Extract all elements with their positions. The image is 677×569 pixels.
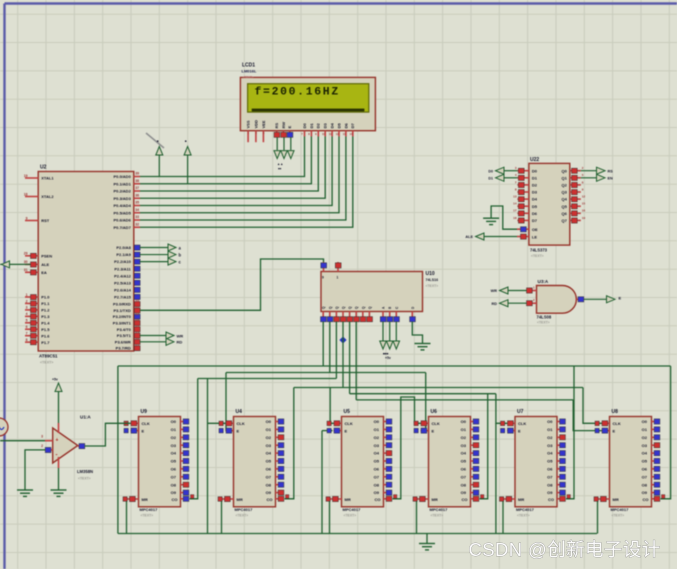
svg-text:LCD1: LCD1 (242, 62, 255, 68)
svg-text:3: 3 (41, 435, 43, 439)
svg-text:O4: O4 (642, 451, 648, 456)
svg-text:U2: U2 (40, 165, 47, 171)
svg-text:O8: O8 (374, 482, 380, 487)
svg-text:D0: D0 (302, 123, 307, 129)
svg-text:▲▲: ▲▲ (277, 162, 283, 166)
svg-text:P2.2/A10: P2.2/A10 (114, 259, 131, 264)
svg-text:O8: O8 (461, 482, 467, 487)
svg-text:<TEXT>: <TEXT> (141, 514, 154, 518)
svg-text:O7: O7 (266, 474, 272, 479)
svg-text:33: 33 (135, 215, 139, 219)
svg-text:O6: O6 (547, 467, 553, 472)
svg-text:XTAL2: XTAL2 (41, 194, 54, 199)
svg-text:O6: O6 (266, 467, 272, 472)
svg-text:Q5: Q5 (561, 204, 567, 209)
svg-text:CO: CO (375, 497, 381, 502)
svg-text:O5: O5 (171, 459, 177, 464)
svg-text:12: 12 (582, 195, 586, 199)
svg-text:EA: EA (41, 270, 47, 275)
svg-text:O4: O4 (374, 451, 380, 456)
svg-text:P1.6: P1.6 (41, 333, 50, 338)
svg-text:13: 13 (135, 318, 139, 322)
svg-text:+: + (56, 438, 59, 444)
svg-text:LM016L: LM016L (242, 69, 257, 74)
svg-text:O3: O3 (461, 443, 467, 448)
svg-text:O2: O2 (171, 435, 177, 440)
svg-text:O6: O6 (461, 467, 467, 472)
svg-text:O5: O5 (266, 459, 272, 464)
svg-text:<TEXT>: <TEXT> (243, 75, 254, 79)
svg-text:MPC4017: MPC4017 (516, 507, 535, 512)
svg-text:AT89C51: AT89C51 (39, 354, 58, 359)
svg-text:O2: O2 (266, 435, 272, 440)
svg-text:19: 19 (582, 216, 586, 220)
svg-text:CSDN @创新电子设计: CSDN @创新电子设计 (469, 539, 661, 560)
svg-text:CLK: CLK (237, 421, 245, 426)
svg-text:CLK: CLK (518, 421, 526, 426)
svg-text:CO: CO (267, 497, 273, 502)
svg-text:11: 11 (135, 306, 139, 310)
svg-text:O7: O7 (642, 474, 648, 479)
svg-text:5: 5 (26, 319, 28, 323)
svg-text:39: 39 (135, 172, 139, 176)
svg-text:PSEN: PSEN (41, 253, 52, 258)
svg-text:O4: O4 (461, 451, 467, 456)
svg-text:D1: D1 (309, 123, 314, 129)
svg-text:P0.6/AD6: P0.6/AD6 (113, 218, 131, 223)
svg-text:<TEXT>: <TEXT> (431, 514, 444, 518)
svg-text:D6: D6 (532, 211, 538, 216)
svg-text:EN: EN (608, 176, 614, 180)
svg-text:O3: O3 (266, 443, 272, 448)
svg-text:D3: D3 (532, 190, 538, 195)
svg-text:Q0: Q0 (561, 168, 567, 173)
svg-text:O8: O8 (642, 482, 648, 487)
svg-text:D2: D2 (316, 123, 321, 129)
svg-text:RS: RS (274, 123, 279, 129)
svg-text:74LS16: 74LS16 (426, 278, 439, 282)
svg-text:O5: O5 (642, 459, 648, 464)
svg-text:P1.7: P1.7 (41, 340, 50, 345)
svg-text:D0: D0 (488, 169, 493, 173)
svg-text:P0.1/AD1: P0.1/AD1 (113, 181, 131, 186)
svg-text:■■: ■■ (278, 168, 282, 171)
svg-text:P1.2: P1.2 (41, 308, 50, 313)
svg-text:E: E (518, 428, 521, 433)
svg-text:14: 14 (513, 202, 517, 206)
svg-text:35: 35 (135, 201, 139, 205)
svg-text:P2.7/A15: P2.7/A15 (114, 294, 131, 299)
svg-text:14: 14 (135, 324, 139, 328)
svg-text:U1:A: U1:A (80, 415, 91, 420)
svg-text:D7: D7 (532, 218, 538, 223)
svg-text:E: E (345, 428, 348, 433)
svg-text:8: 8 (26, 338, 28, 342)
svg-text:16: 16 (582, 209, 586, 213)
svg-text:4: 4 (26, 312, 28, 316)
svg-text:O1: O1 (461, 427, 467, 432)
svg-text:O7: O7 (547, 474, 553, 479)
svg-text:D2: D2 (532, 183, 538, 188)
svg-text:Q1: Q1 (561, 175, 567, 180)
svg-text:MPC4017: MPC4017 (235, 507, 254, 512)
svg-text:MR: MR (432, 497, 438, 502)
svg-text:CO: CO (643, 497, 649, 502)
svg-text:O2: O2 (642, 435, 648, 440)
svg-text:P0.0/AD0: P0.0/AD0 (113, 174, 131, 179)
svg-text:Q7: Q7 (561, 218, 567, 223)
svg-text:CLK: CLK (345, 421, 353, 426)
svg-text:O0: O0 (374, 419, 380, 424)
svg-text:U9: U9 (141, 409, 148, 415)
svg-text:O0: O0 (461, 419, 467, 424)
svg-text:WR: WR (177, 333, 184, 338)
svg-text:RST: RST (41, 218, 50, 223)
svg-text:O1: O1 (266, 427, 272, 432)
svg-text:38: 38 (135, 179, 139, 183)
svg-text:LE: LE (532, 235, 537, 240)
svg-text:O2: O2 (547, 435, 553, 440)
svg-text:<TEXT>: <TEXT> (531, 254, 544, 258)
svg-text:O1: O1 (642, 427, 648, 432)
svg-text:D6: D6 (343, 123, 348, 129)
svg-text:RD: RD (177, 340, 183, 345)
svg-text:D3: D3 (323, 123, 328, 129)
svg-text:P2.4/A12: P2.4/A12 (114, 273, 131, 278)
svg-text:<TEXT>: <TEXT> (612, 514, 625, 518)
svg-text:P0.4/AD4: P0.4/AD4 (113, 203, 131, 208)
svg-text:P1.5: P1.5 (41, 327, 50, 332)
svg-text:f=200.16HZ: f=200.16HZ (255, 86, 340, 98)
svg-text:Q4: Q4 (561, 197, 567, 202)
svg-text:MPC4017: MPC4017 (140, 507, 159, 512)
svg-text:P0.2/AD2: P0.2/AD2 (113, 189, 131, 194)
svg-text:P1.1: P1.1 (41, 301, 50, 306)
svg-text:P0.7/AD7: P0.7/AD7 (113, 225, 131, 230)
svg-text:<TEXT>: <TEXT> (517, 514, 530, 518)
svg-text:E: E (613, 428, 616, 433)
svg-text:MR: MR (518, 497, 524, 502)
svg-text:9: 9 (26, 216, 28, 220)
svg-text:13: 13 (513, 195, 517, 199)
svg-text:-: - (56, 453, 58, 459)
svg-text:<TEXT>: <TEXT> (344, 514, 357, 518)
svg-text:P3.1/TXD: P3.1/TXD (113, 308, 130, 313)
svg-text:O7: O7 (171, 474, 177, 479)
svg-text:O0: O0 (171, 419, 177, 424)
svg-text:P3.0/RXD: P3.0/RXD (113, 302, 131, 307)
svg-text:O0: O0 (547, 419, 553, 424)
svg-text:74LS08: 74LS08 (537, 315, 552, 320)
svg-text:Q2: Q2 (561, 183, 567, 188)
svg-text:E: E (287, 125, 292, 128)
svg-text:O9: O9 (547, 490, 553, 495)
svg-text:O4: O4 (547, 451, 553, 456)
svg-text:O8: O8 (171, 482, 177, 487)
svg-text:XTAL1: XTAL1 (41, 176, 54, 181)
svg-text:74LS373: 74LS373 (530, 248, 548, 253)
svg-text:O1: O1 (547, 427, 553, 432)
svg-text:O1: O1 (374, 427, 380, 432)
svg-text:P3.2/INT0: P3.2/INT0 (113, 314, 132, 319)
svg-text:15: 15 (582, 202, 586, 206)
svg-text:P2.3/A11: P2.3/A11 (114, 266, 131, 271)
svg-text:34: 34 (135, 208, 139, 212)
svg-text:2: 2 (41, 444, 43, 448)
svg-text:P0.3/AD3: P0.3/AD3 (113, 196, 131, 201)
svg-text:U8: U8 (612, 409, 619, 415)
svg-text:D0: D0 (532, 168, 538, 173)
svg-text:<TEXT>: <TEXT> (78, 477, 91, 481)
svg-text:E: E (432, 428, 435, 433)
svg-text:18: 18 (513, 216, 517, 220)
svg-text:Q3: Q3 (561, 190, 567, 195)
svg-text:P0.5/AD5: P0.5/AD5 (113, 210, 131, 215)
svg-text:3: 3 (26, 306, 28, 310)
svg-text:Q6: Q6 (561, 211, 567, 216)
svg-text:U7: U7 (517, 409, 524, 415)
svg-text:O3: O3 (547, 443, 553, 448)
svg-text:10: 10 (135, 299, 139, 303)
svg-text:O5: O5 (374, 459, 380, 464)
svg-text:O6: O6 (374, 467, 380, 472)
svg-text:O2: O2 (461, 435, 467, 440)
svg-text:P2.5/A13: P2.5/A13 (114, 280, 131, 285)
svg-text:O9: O9 (171, 490, 177, 495)
svg-text:O9: O9 (642, 490, 648, 495)
svg-text:O8: O8 (266, 482, 272, 487)
svg-text:9: 9 (322, 276, 324, 280)
svg-text:CLK: CLK (613, 421, 621, 426)
svg-text:ALE: ALE (41, 262, 49, 267)
svg-text:P3.4/T0: P3.4/T0 (117, 327, 132, 332)
svg-text:D5: D5 (532, 204, 538, 209)
svg-text:O3: O3 (374, 443, 380, 448)
svg-text:O9: O9 (461, 490, 467, 495)
svg-text:12: 12 (135, 312, 139, 316)
svg-text:O9: O9 (374, 490, 380, 495)
svg-text:RW: RW (281, 122, 286, 129)
svg-text:LM358N: LM358N (77, 469, 93, 474)
svg-text:<TEXT>: <TEXT> (426, 284, 439, 288)
svg-text:U4: U4 (236, 409, 243, 415)
svg-text:P3.3/INT1: P3.3/INT1 (113, 321, 132, 326)
svg-text:31: 31 (24, 268, 28, 272)
svg-text:ALE: ALE (465, 235, 473, 239)
svg-text:29: 29 (24, 252, 28, 256)
svg-text:O6: O6 (642, 467, 648, 472)
svg-text:O7: O7 (461, 474, 467, 479)
svg-text:RS: RS (608, 169, 614, 173)
svg-text:CO: CO (462, 497, 468, 502)
svg-text:MPC4017: MPC4017 (343, 507, 362, 512)
svg-text:VSS: VSS (246, 120, 251, 128)
svg-text:P3.7/RD: P3.7/RD (116, 346, 131, 351)
svg-text:b: b (179, 252, 182, 257)
svg-text:O9: O9 (266, 490, 272, 495)
svg-text:32: 32 (135, 222, 139, 226)
svg-text:O5: O5 (547, 459, 553, 464)
svg-text:<TEXT>: <TEXT> (40, 361, 53, 365)
svg-text:■: ■ (155, 140, 159, 142)
svg-text:37: 37 (135, 186, 139, 190)
svg-text:1: 1 (26, 293, 28, 297)
svg-text:P1.0: P1.0 (41, 295, 50, 300)
svg-text:D5: D5 (336, 123, 341, 129)
svg-text:D1: D1 (488, 176, 493, 180)
svg-text:17: 17 (135, 343, 139, 347)
svg-text:P1.3: P1.3 (41, 314, 50, 319)
svg-text:U5: U5 (344, 409, 351, 415)
svg-text:P1.4: P1.4 (41, 320, 50, 325)
svg-text:VEE: VEE (261, 120, 266, 128)
svg-text:2: 2 (26, 299, 28, 303)
svg-text:6: 6 (26, 325, 28, 329)
svg-text:P2.0/A8: P2.0/A8 (116, 245, 131, 250)
svg-text:+5v: +5v (52, 378, 58, 382)
svg-text:O3: O3 (642, 443, 648, 448)
svg-text:36: 36 (135, 193, 139, 197)
svg-text:O4: O4 (171, 451, 177, 456)
svg-text:O1: O1 (171, 427, 177, 432)
svg-text:WR: WR (491, 289, 498, 293)
svg-text:16: 16 (135, 337, 139, 341)
svg-text:P3.5/T1: P3.5/T1 (117, 333, 132, 338)
svg-text:E: E (237, 428, 240, 433)
svg-text:U6: U6 (431, 409, 438, 415)
svg-text:30: 30 (24, 260, 28, 264)
svg-text:MPC4017: MPC4017 (611, 507, 630, 512)
svg-text:CLK: CLK (142, 421, 150, 426)
svg-text:O3: O3 (171, 443, 177, 448)
svg-text:1: 1 (337, 276, 339, 280)
svg-text:P2.6/A14: P2.6/A14 (114, 287, 131, 292)
svg-text:O7: O7 (374, 474, 380, 479)
svg-text:D7: D7 (350, 123, 355, 129)
svg-text:■■■: ■■■ (383, 352, 389, 356)
svg-text:■: ■ (184, 140, 188, 142)
svg-text:15: 15 (135, 331, 139, 335)
svg-text:CO: CO (548, 497, 554, 502)
svg-text:MR: MR (142, 497, 148, 502)
svg-text:O0: O0 (642, 419, 648, 424)
svg-text:RD: RD (492, 302, 498, 306)
svg-text:MR: MR (613, 497, 619, 502)
svg-text:D1: D1 (532, 175, 538, 180)
svg-text:O2: O2 (374, 435, 380, 440)
svg-text:O8: O8 (547, 482, 553, 487)
svg-text:<TEXT>: <TEXT> (537, 321, 550, 325)
svg-text:CO: CO (172, 497, 178, 502)
svg-text:<TEXT>: <TEXT> (236, 514, 249, 518)
svg-text:U10: U10 (426, 271, 435, 277)
svg-text:MR: MR (237, 497, 243, 502)
svg-text:U22: U22 (530, 157, 539, 163)
svg-text:MPC4017: MPC4017 (430, 507, 449, 512)
svg-text:7: 7 (26, 332, 28, 336)
svg-text:D4: D4 (532, 197, 538, 202)
svg-text:O0: O0 (266, 419, 272, 424)
svg-text:VDD: VDD (253, 120, 258, 129)
svg-text:P2.1/A9: P2.1/A9 (116, 252, 131, 257)
svg-text:17: 17 (513, 209, 517, 213)
svg-text:P3.6/WR: P3.6/WR (115, 339, 131, 344)
svg-text:E: E (142, 428, 145, 433)
svg-text:CLK: CLK (432, 421, 440, 426)
svg-text:O6: O6 (171, 467, 177, 472)
svg-text:19: 19 (24, 174, 28, 178)
svg-text:O5: O5 (461, 459, 467, 464)
svg-text:18: 18 (24, 192, 28, 196)
svg-text:E: E (619, 296, 622, 301)
svg-text:O4: O4 (266, 451, 272, 456)
svg-text:MR: MR (345, 497, 351, 502)
svg-text:+5v: +5v (385, 356, 391, 360)
svg-text:OE: OE (532, 227, 538, 232)
svg-text:D4: D4 (330, 123, 335, 129)
svg-text:U3:A: U3:A (538, 279, 549, 284)
